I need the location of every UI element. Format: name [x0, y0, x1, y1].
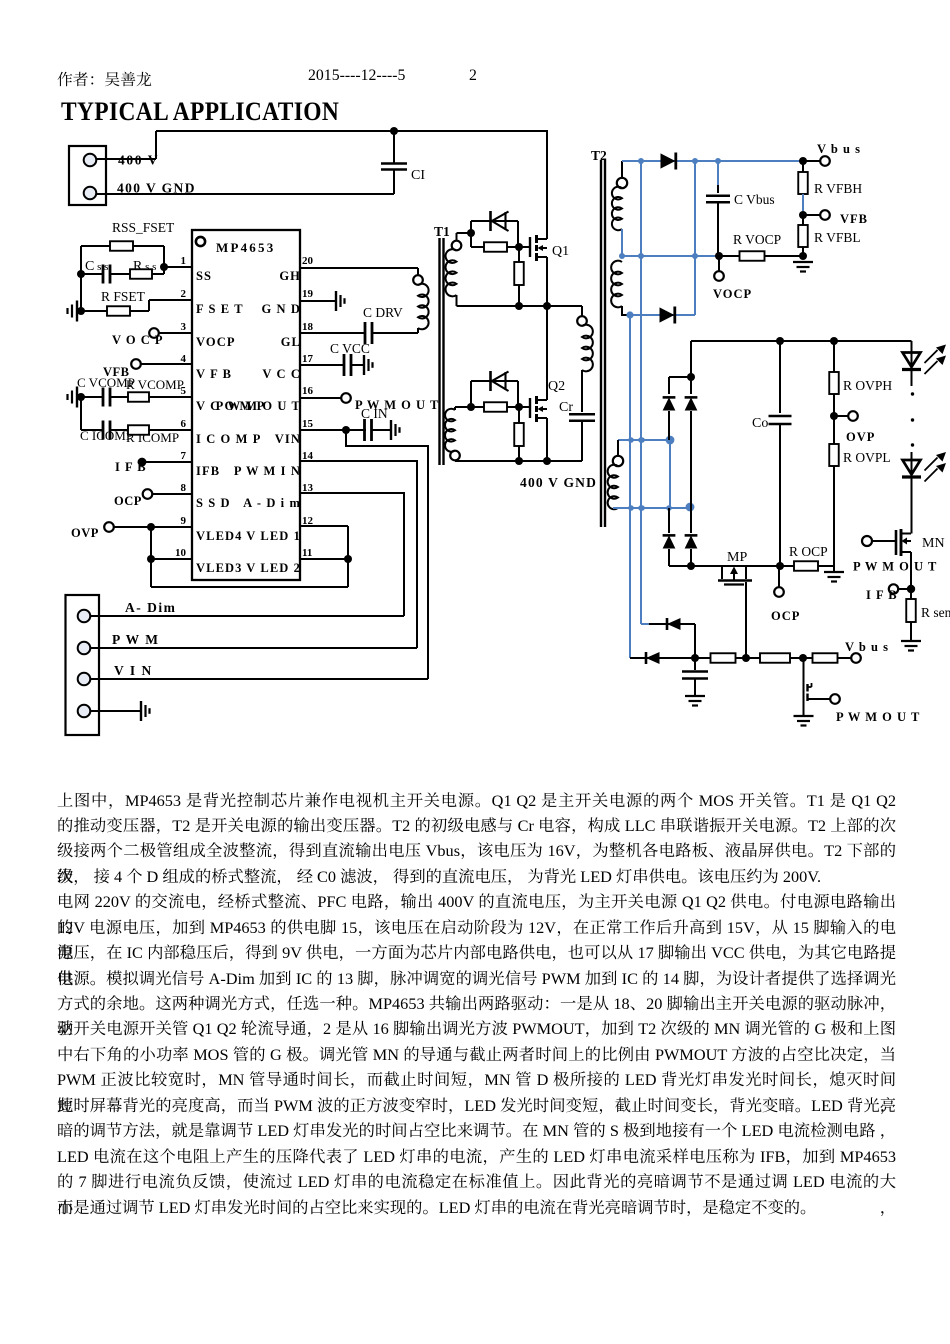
- svg-text:16: 16: [302, 385, 314, 397]
- svg-text:C Vbus: C Vbus: [734, 192, 775, 207]
- svg-text:R FSET: R FSET: [101, 289, 146, 304]
- svg-text:VIN: VIN: [275, 432, 301, 446]
- svg-text:C s s: C s s: [85, 259, 108, 274]
- svg-text:MN: MN: [922, 536, 945, 551]
- svg-text:OVP: OVP: [846, 430, 875, 444]
- svg-text:OCP: OCP: [114, 494, 142, 508]
- svg-text:400 V GND: 400 V GND: [117, 181, 196, 196]
- svg-text:IFB: IFB: [196, 464, 220, 478]
- svg-text:P W M O U T: P W M O U T: [836, 710, 920, 724]
- svg-text:VOCP: VOCP: [713, 287, 752, 301]
- svg-text:MP4653: MP4653: [216, 240, 275, 255]
- svg-text:F S E T: F S E T: [196, 302, 244, 316]
- svg-text:CI: CI: [411, 168, 425, 183]
- svg-text:T1: T1: [434, 224, 450, 239]
- svg-text:400 V: 400 V: [118, 153, 159, 168]
- svg-text:G N D: G N D: [261, 302, 301, 316]
- svg-text:Co: Co: [752, 416, 768, 431]
- svg-text:V LED 2: V LED 2: [246, 561, 301, 575]
- svg-text:R VFBL: R VFBL: [814, 230, 861, 245]
- svg-text:3: 3: [181, 321, 187, 333]
- svg-text:C DRV: C DRV: [363, 305, 403, 320]
- svg-text:R VOCP: R VOCP: [733, 232, 781, 247]
- svg-text:I F B: I F B: [866, 588, 898, 602]
- svg-text:VLED3: VLED3: [196, 561, 242, 575]
- svg-text:17: 17: [302, 353, 314, 365]
- svg-text:R VCOMP: R VCOMP: [126, 377, 184, 392]
- svg-text:R VFBH: R VFBH: [814, 181, 862, 196]
- svg-text:Q1: Q1: [552, 244, 569, 259]
- svg-text:6: 6: [181, 418, 187, 430]
- svg-text:C IN: C IN: [361, 406, 388, 421]
- svg-text:Cr: Cr: [559, 400, 573, 415]
- svg-text:C VCC: C VCC: [330, 341, 370, 356]
- svg-text:A - D i m: A - D i m: [243, 496, 301, 510]
- svg-text:400 V GND: 400 V GND: [520, 475, 597, 490]
- svg-text:8: 8: [181, 482, 187, 494]
- svg-text:P W M I N: P W M I N: [234, 464, 301, 478]
- svg-text:P W M: P W M: [112, 632, 160, 647]
- svg-text:V b u s: V b u s: [817, 142, 861, 156]
- svg-text:R OVPL: R OVPL: [843, 450, 891, 465]
- svg-text:V F B: V F B: [196, 367, 232, 381]
- svg-text:GL: GL: [281, 335, 301, 349]
- svg-text:VOCP: VOCP: [196, 335, 236, 349]
- svg-text:OCP: OCP: [771, 609, 800, 623]
- svg-text:GH: GH: [279, 269, 301, 283]
- svg-text:RSS_FSET: RSS_FSET: [112, 220, 175, 235]
- svg-text:SS: SS: [196, 269, 212, 283]
- svg-text:P W M O U T: P W M O U T: [216, 399, 301, 413]
- svg-text:18: 18: [302, 321, 314, 333]
- svg-text:A- Dim: A- Dim: [125, 600, 176, 615]
- svg-text:15: 15: [302, 418, 314, 430]
- svg-text:VLED4: VLED4: [196, 529, 242, 543]
- svg-text:MP: MP: [727, 550, 747, 565]
- svg-text:V O C P: V O C P: [112, 333, 164, 347]
- svg-text:11: 11: [302, 547, 312, 559]
- svg-text:V LED 1: V LED 1: [246, 529, 301, 543]
- svg-text:OVP: OVP: [71, 526, 99, 540]
- svg-text:R OVPH: R OVPH: [843, 378, 892, 393]
- svg-text:I C O M P: I C O M P: [196, 432, 261, 446]
- svg-text:V I N: V I N: [114, 663, 153, 678]
- svg-text:2: 2: [181, 288, 187, 300]
- svg-text:9: 9: [181, 515, 187, 527]
- svg-text:R sen: R sen: [921, 605, 950, 620]
- svg-text:R OCP: R OCP: [789, 544, 828, 559]
- svg-text:S S D: S S D: [196, 496, 231, 510]
- svg-text:I F B: I F B: [115, 460, 147, 474]
- svg-text:10: 10: [175, 547, 187, 559]
- svg-text:P W M O U T: P W M O U T: [853, 560, 937, 574]
- svg-text:V b u s: V b u s: [845, 640, 889, 654]
- svg-text:V C C: V C C: [262, 367, 301, 381]
- svg-text:Q2: Q2: [548, 379, 565, 394]
- svg-text:7: 7: [181, 450, 187, 462]
- svg-text:19: 19: [302, 288, 314, 300]
- svg-text:1: 1: [181, 255, 187, 267]
- svg-text:VFB: VFB: [840, 212, 868, 226]
- svg-text:20: 20: [302, 255, 314, 267]
